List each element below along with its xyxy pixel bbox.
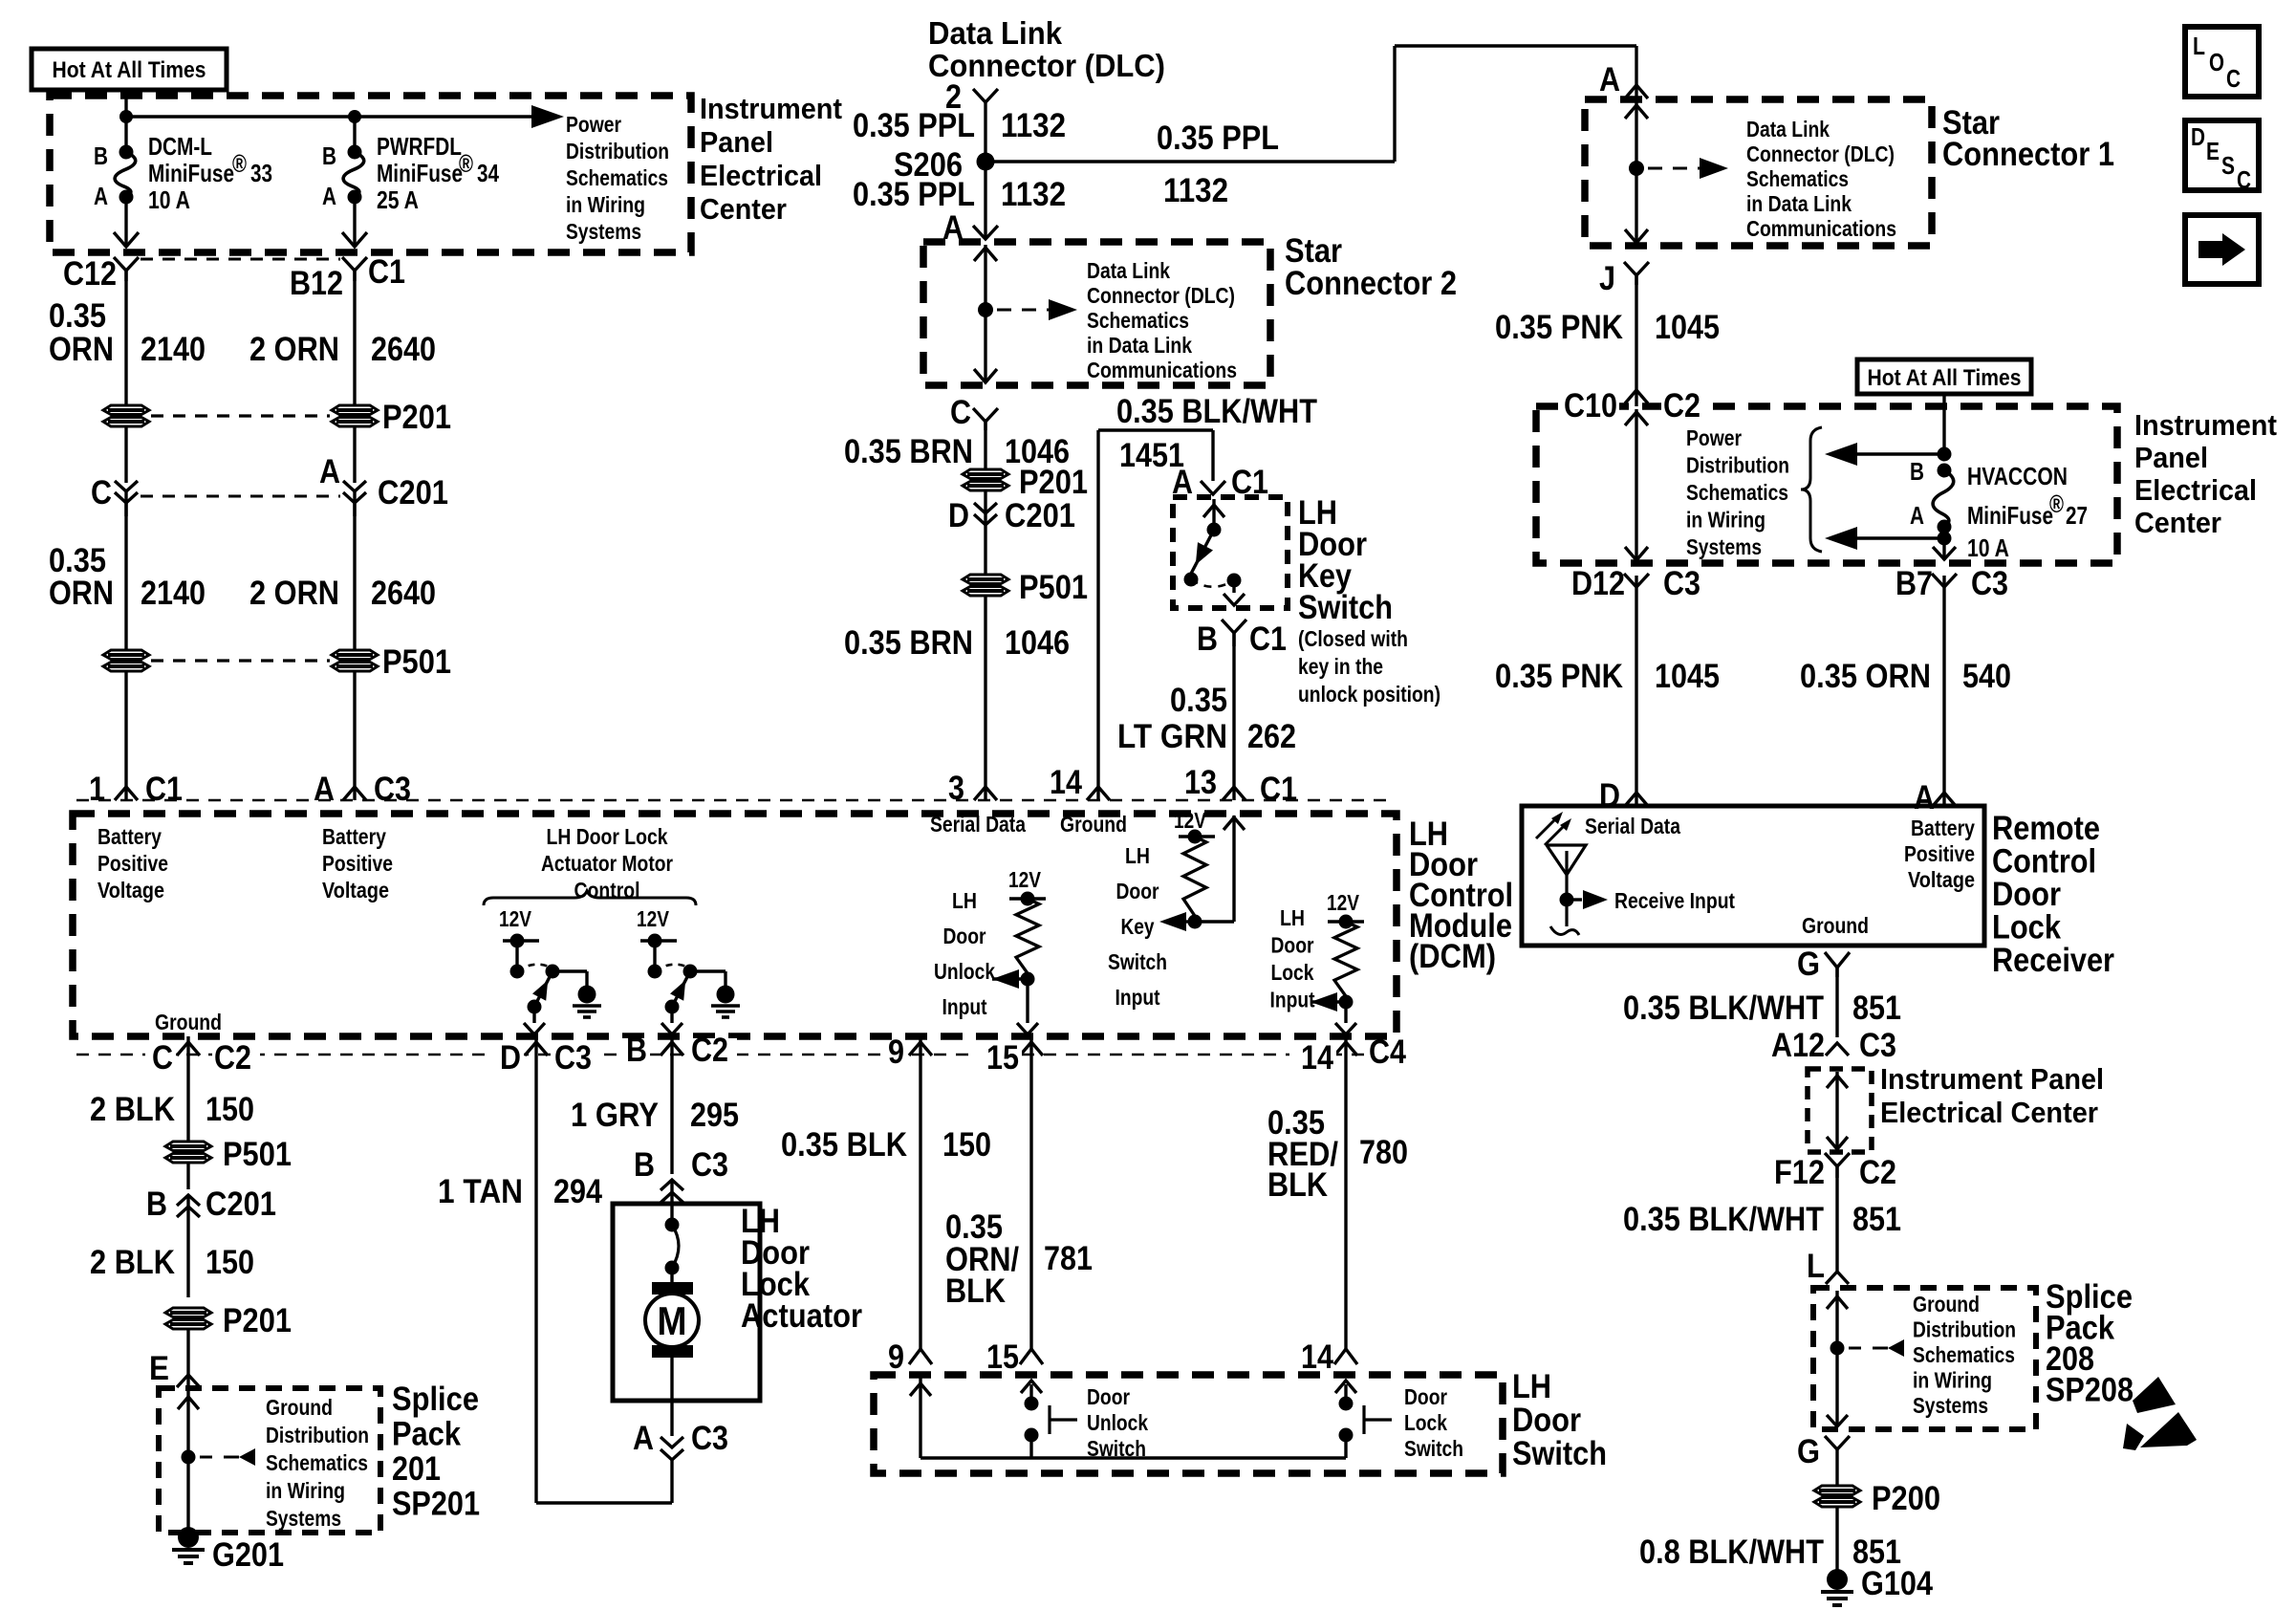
svg-text:O: O — [2209, 48, 2224, 76]
wire 2640 to DCM pin A — [343, 671, 366, 800]
pin label C1 (DCM pin1) — [145, 771, 183, 808]
label LH Door Key Switch — [1298, 494, 1393, 626]
svg-text:Schematics: Schematics — [1087, 308, 1189, 333]
svg-text:Switch: Switch — [1298, 589, 1393, 626]
node key switch output — [1227, 574, 1242, 588]
svg-text:Instrument: Instrument — [700, 92, 842, 125]
node antenna tap — [1560, 893, 1574, 907]
svg-text:Distribution: Distribution — [566, 139, 669, 163]
label 12V (left actuator switch) — [499, 906, 532, 931]
pin label 14 (DCM ground) — [1050, 764, 1082, 801]
label circuit 2640 upper — [371, 331, 436, 368]
label Remote Control Door Lock Receiver — [1992, 810, 2114, 979]
connector boundary dashed DCM top — [76, 799, 1391, 802]
svg-text:Electrical: Electrical — [700, 159, 822, 192]
node left switch input — [510, 965, 525, 979]
label circuit 1045 lower — [1655, 658, 1720, 695]
svg-text:0.35: 0.35 — [49, 297, 106, 335]
wire 1132 S206 to star connector 1 (up and over) — [986, 46, 1636, 162]
connector A12/C3 chevron — [1826, 1043, 1849, 1055]
pin label J (star conn 1 out) — [1599, 260, 1615, 297]
svg-text:0.35 BLK/WHT: 0.35 BLK/WHT — [1623, 990, 1824, 1027]
svg-text:25 A: 25 A — [377, 185, 419, 214]
connector C1 chevron (fuse34 out) — [342, 257, 367, 281]
node unlock switch bottom — [1025, 1428, 1039, 1443]
label 0.35 RED/BLK — [1267, 1104, 1338, 1204]
label Ground (DCM bottom left) — [155, 1010, 222, 1034]
svg-text:C3: C3 — [374, 771, 411, 808]
svg-text:Schematics: Schematics — [1746, 166, 1849, 191]
label 0.35 PPL lower — [853, 176, 975, 213]
label circuit 851 middle — [1852, 1201, 1901, 1238]
wire fuse27 to box edge — [1933, 538, 1956, 560]
wire fuse34 top stub — [353, 117, 356, 152]
svg-text:A: A — [94, 182, 108, 210]
svg-text:C3: C3 — [1663, 565, 1700, 602]
pin label A fuse27 — [1910, 501, 1924, 530]
svg-text:C3: C3 — [554, 1039, 592, 1077]
pin label 15 (switch in) — [986, 1338, 1019, 1376]
svg-text:1 TAN: 1 TAN — [438, 1173, 523, 1210]
connector P201 on wire 150 — [165, 1308, 211, 1329]
svg-text:Communications: Communications — [1087, 358, 1237, 382]
connector C201 chevrons wire 2640 — [343, 481, 366, 516]
svg-text:0.35: 0.35 — [1170, 682, 1227, 719]
svg-text:P201: P201 — [382, 399, 451, 436]
pin label B (C201 ground) — [146, 1186, 167, 1223]
label circuit 2140 upper — [141, 331, 206, 368]
svg-text:Input: Input — [1116, 985, 1160, 1010]
svg-text:Switch: Switch — [1108, 949, 1167, 974]
svg-text:150: 150 — [206, 1091, 254, 1128]
svg-text:C1: C1 — [1260, 771, 1297, 808]
svg-text:Battery: Battery — [1911, 816, 1975, 840]
pin label A (star conn 2) — [942, 209, 964, 247]
svg-text:B: B — [1197, 620, 1218, 658]
svg-text:Serial Data: Serial Data — [1585, 814, 1680, 838]
power label box Hot At All Times (right) — [1857, 359, 2031, 394]
pin label C3 (DCM pinA) — [374, 771, 411, 808]
svg-text:780: 780 — [1359, 1134, 1408, 1171]
svg-text:key in the: key in the — [1298, 654, 1383, 679]
connector L chevron — [1826, 1272, 1849, 1284]
pin label C12 — [63, 255, 117, 293]
node S206 splice — [977, 153, 995, 171]
svg-text:E: E — [2206, 137, 2220, 165]
svg-text:Input: Input — [1270, 988, 1315, 1012]
connector P501 on wire 1046 — [963, 575, 1008, 596]
pin label C3 (D12) — [1663, 565, 1700, 602]
node key switch common — [1207, 523, 1222, 537]
svg-text:in Data Link: in Data Link — [1746, 191, 1852, 216]
label circuit 1132 upper — [1001, 107, 1066, 144]
wire inside star connector 1 — [1625, 102, 1648, 243]
node left switch output — [528, 1000, 542, 1014]
svg-text:0.35 BLK/WHT: 0.35 BLK/WHT — [1623, 1201, 1824, 1238]
wire actuator bottom return — [536, 1460, 672, 1503]
node SP201 tap — [182, 1450, 196, 1465]
svg-text:294: 294 — [553, 1173, 602, 1210]
pin label C3 (A12) — [1859, 1027, 1896, 1064]
svg-text:C3: C3 — [1971, 565, 2008, 602]
svg-text:Door: Door — [1271, 933, 1314, 958]
label C201 (middle) — [1005, 497, 1075, 534]
svg-text:1 GRY: 1 GRY — [571, 1097, 659, 1134]
label circuit 780 — [1359, 1134, 1408, 1171]
svg-text:C2: C2 — [1859, 1154, 1896, 1191]
svg-text:Systems: Systems — [1686, 534, 1762, 559]
wire right switch to pin B — [661, 1007, 682, 1034]
connector C chevron below star conn 2 — [973, 408, 998, 430]
pin label A (C201 right) — [319, 453, 340, 490]
svg-text:in Wiring: in Wiring — [266, 1478, 345, 1503]
label Door Unlock Switch — [1087, 1384, 1148, 1461]
svg-text:Schematics: Schematics — [1913, 1342, 2015, 1367]
connector P201 on wire 1046 — [963, 469, 1008, 490]
svg-text:150: 150 — [206, 1244, 254, 1281]
pin label B (key switch bottom) — [1197, 620, 1218, 658]
svg-text:B: B — [1910, 457, 1924, 486]
wire from Hot At All Times box down — [124, 90, 127, 117]
svg-text:Data Link: Data Link — [1746, 117, 1830, 141]
pin label 1 (DCM) — [89, 771, 105, 808]
ground G104 — [1821, 1569, 1853, 1605]
label Ground Distribution Schematics in Wiring Systems (SP208) — [1913, 1292, 2016, 1418]
pin label 9 (switch in) — [888, 1338, 904, 1376]
label 2 ORN (wire 2640 upper) — [249, 331, 339, 368]
svg-text:0.35 BRN: 0.35 BRN — [844, 433, 973, 470]
wire 1132 pin2 to S206 — [984, 102, 986, 162]
wire 150 upper — [186, 1057, 189, 1142]
label Star Connector 2 — [1285, 232, 1457, 302]
svg-text:D12: D12 — [1571, 565, 1625, 602]
svg-text:D: D — [500, 1039, 521, 1077]
connector P200 — [1814, 1486, 1860, 1507]
connector 9 chevron below DCM — [909, 1036, 932, 1057]
arrow key switch input — [1159, 912, 1197, 931]
wire 1 GRY 295 — [670, 1057, 673, 1174]
supply bar lock resistor — [1328, 915, 1364, 929]
label 1 TAN — [438, 1173, 523, 1210]
pin label E (splice in) — [149, 1350, 169, 1387]
ground G201 — [172, 1527, 205, 1563]
svg-text:Voltage: Voltage — [97, 878, 164, 903]
svg-text:Connector 1: Connector 1 — [1942, 136, 2114, 173]
svg-text:Voltage: Voltage — [322, 878, 389, 903]
wire 2640 lower segment — [353, 503, 356, 650]
svg-text:C1: C1 — [1249, 620, 1287, 658]
wire 851 upper — [1835, 968, 1838, 1037]
instrument panel electrical center small box (dashed) — [1808, 1069, 1872, 1152]
pin label D (receiver) — [1599, 777, 1620, 815]
label Ground (DCM pin14) — [1060, 812, 1127, 837]
connector A chevron into star connector 2 — [973, 226, 998, 239]
svg-text:0.35 PPL: 0.35 PPL — [853, 176, 975, 213]
svg-text:Connector 2: Connector 2 — [1285, 265, 1457, 302]
svg-text:Switch: Switch — [1512, 1435, 1607, 1472]
wire fuse33 top stub — [124, 117, 127, 152]
svg-text:9: 9 — [888, 1033, 904, 1071]
svg-text:2640: 2640 — [371, 575, 436, 612]
pin label C2 (actuator) — [689, 1032, 737, 1069]
arrow from text SP208 — [1849, 1339, 1904, 1357]
label DLC Schematics in Data Link Communications (conn 1) — [1746, 117, 1896, 241]
label P501 (ground chain) — [223, 1136, 292, 1173]
svg-text:L: L — [1807, 1248, 1825, 1285]
connector B/C3 double chevron — [661, 1180, 683, 1225]
label 0.35 BLK/WHT (1451) — [1116, 393, 1317, 430]
svg-text:DCM-L: DCM-L — [148, 132, 212, 161]
svg-text:12V: 12V — [1174, 808, 1207, 833]
svg-text:Serial Data: Serial Data — [930, 812, 1026, 837]
label Data Link Connector (DLC) title — [928, 15, 1165, 83]
arrow lock input — [1310, 992, 1346, 1012]
LH door switch box (dashed) — [874, 1375, 1503, 1473]
wire inside splice pack 208 — [1827, 1291, 1848, 1426]
svg-text:Lock: Lock — [1992, 909, 2061, 946]
label 0.35 PNK upper — [1495, 309, 1623, 346]
svg-text:Battery: Battery — [322, 824, 386, 849]
svg-text:unlock position): unlock position) — [1298, 682, 1440, 707]
svg-text:MiniFuse: MiniFuse — [1967, 501, 2053, 530]
label 0.35 PPL upper — [853, 107, 975, 144]
splice pack 208 box (dashed) — [1813, 1288, 2036, 1429]
wire lock input to pin 14 C4 — [1335, 1002, 1356, 1034]
label Splice Pack 208 SP208 — [2046, 1278, 2134, 1409]
label Power Distribution Schematics in Wiring Systems (top-left) — [566, 112, 669, 244]
node lock switch bottom — [1339, 1428, 1354, 1443]
fuse F27 HVACCON MiniFuse 27 10A — [1933, 464, 1954, 534]
label circuit 851 upper — [1852, 990, 1901, 1027]
svg-text:LH: LH — [1512, 1368, 1551, 1405]
power label box Hot At All Times (left) — [32, 49, 227, 90]
pin label A (star conn 1) — [1599, 61, 1620, 98]
svg-text:Unlock: Unlock — [934, 959, 995, 984]
svg-text:Receiver: Receiver — [1992, 942, 2114, 979]
wire key input to pin 13 riser — [1195, 816, 1245, 922]
pin label C4 — [1367, 1033, 1415, 1071]
svg-text:0.35 PPL: 0.35 PPL — [1157, 120, 1279, 157]
lock switch arrow up — [1335, 1381, 1356, 1397]
label LH Door Switch — [1512, 1368, 1607, 1472]
connector B7/C3 chevron — [1932, 574, 1957, 587]
label 0.35 PPL (horizontal run) — [1157, 120, 1279, 157]
svg-text:C2: C2 — [691, 1032, 728, 1069]
svg-text:Power: Power — [1686, 425, 1742, 450]
connector C201 chevrons wire 150 — [177, 1195, 200, 1297]
label circuit 150 lower — [206, 1244, 254, 1281]
label circuit 2640 lower — [371, 575, 436, 612]
pin label D (C201 middle) — [948, 497, 969, 534]
svg-text:14: 14 — [1301, 1039, 1333, 1077]
LH door control module box (dashed) — [73, 814, 1397, 1036]
label P201 (ground chain) — [223, 1302, 292, 1339]
svg-text:0.35 PPL: 0.35 PPL — [853, 107, 975, 144]
label 2 ORN (wire 2640 lower) — [249, 575, 339, 612]
dashed arc key switch — [1191, 579, 1234, 587]
wire fuse33 to box edge with arrow — [114, 197, 139, 247]
dashed link P501-P501 — [151, 659, 330, 662]
svg-text:Pack: Pack — [392, 1416, 461, 1453]
svg-text:Door: Door — [943, 924, 986, 948]
node HVACCON junction upper — [1938, 447, 1952, 462]
svg-text:2140: 2140 — [141, 331, 206, 368]
pin label C (ground out) — [145, 1039, 176, 1077]
svg-text:BLK: BLK — [1267, 1166, 1328, 1204]
svg-text:C3: C3 — [691, 1146, 728, 1184]
svg-text:Distribution: Distribution — [1913, 1317, 2016, 1342]
connector A C1 chevron into key switch — [1201, 481, 1225, 494]
svg-text:1045: 1045 — [1655, 309, 1720, 346]
star connector 2 box (dashed) — [923, 242, 1270, 385]
node lock resistor bottom — [1339, 995, 1354, 1010]
supply bar unlock resistor — [1009, 892, 1046, 906]
wire HVACCON feed from Hot box — [1942, 394, 1945, 454]
pin label A (receiver) — [1914, 779, 1935, 816]
label 1132 (horizontal run) — [1163, 172, 1228, 209]
label 0.35 ORN (wire 2140 lower) — [49, 542, 114, 612]
wire 2140 upper segment — [124, 271, 127, 405]
wire unlock input to pin 15 — [1017, 979, 1038, 1034]
wire 1046 to DCM pin 3 — [974, 596, 997, 800]
wire 1132 S206 to star connector 2 — [984, 162, 986, 239]
svg-text:13: 13 — [1184, 764, 1217, 801]
connector P201 on wire 2640 — [332, 405, 378, 426]
svg-text:12V: 12V — [1008, 867, 1042, 892]
svg-text:0.35 ORN: 0.35 ORN — [1800, 658, 1931, 695]
pin label B fuse34 — [322, 141, 336, 170]
svg-text:PWRFDL: PWRFDL — [377, 132, 462, 161]
svg-text:Lock: Lock — [1271, 960, 1314, 985]
label P200 — [1872, 1480, 1940, 1517]
antenna receiver — [1536, 812, 1586, 935]
wire 150 to splice pack — [177, 1329, 200, 1388]
wire 1451 loop — [1098, 430, 1213, 800]
pin label G (receiver) — [1797, 946, 1820, 983]
wire 2140 to DCM pin 1 — [115, 671, 138, 800]
label Ground Distribution Schematics in Wiring Systems (SP201) — [266, 1395, 369, 1531]
pin label C3 (actuator bottom) — [691, 1420, 728, 1457]
svg-text:9: 9 — [888, 1338, 904, 1376]
pin label A fuse33 — [94, 182, 108, 210]
svg-text:Ground: Ground — [155, 1010, 222, 1034]
node key resistor bottom — [1188, 915, 1202, 929]
wire 1046 upper — [984, 422, 986, 469]
connector C12 chevron — [114, 257, 139, 281]
label Instrument Panel Electrical Center (top-left) — [700, 92, 842, 226]
pin label 14 (DCM out) — [1289, 1039, 1336, 1077]
svg-text:P201: P201 — [223, 1302, 292, 1339]
svg-text:Switch: Switch — [1404, 1436, 1463, 1461]
svg-text:B: B — [634, 1146, 655, 1184]
label 0.35 PNK lower — [1495, 658, 1623, 695]
svg-text:Voltage: Voltage — [1908, 867, 1975, 892]
wire arrow to power dist (upper) — [1825, 443, 1944, 466]
svg-text:Center: Center — [2134, 506, 2221, 539]
svg-text:1132: 1132 — [1001, 176, 1066, 213]
node actuator switch top — [665, 1218, 680, 1232]
svg-text:Door: Door — [1992, 876, 2061, 913]
pin label C2 (F12) — [1859, 1154, 1896, 1191]
node lock switch top — [1339, 1397, 1354, 1411]
svg-text:150: 150 — [942, 1126, 991, 1164]
svg-text:15: 15 — [986, 1338, 1019, 1376]
wire inside splice pack 201 — [178, 1391, 199, 1530]
unlock switch actuator symbol — [1050, 1405, 1077, 1434]
svg-text:C: C — [2226, 64, 2241, 93]
wire 1045 upper — [1635, 275, 1637, 406]
label 0.35 ORN/BLK — [945, 1208, 1019, 1310]
wire switch common bus — [921, 1456, 1346, 1459]
node tap star connector 1 — [1629, 161, 1644, 176]
brace actuator motor control — [484, 891, 696, 905]
label HVACCON MiniFuse 27 10A — [1967, 462, 2088, 562]
node HVACCON junction lower — [1938, 532, 1952, 546]
label P201 (middle) — [1019, 464, 1088, 501]
dashed link C-C201 — [141, 495, 340, 498]
svg-text:A: A — [314, 771, 335, 808]
connector pin 14 chevron — [1087, 787, 1110, 800]
label C201 (top left) — [378, 474, 448, 511]
svg-text:C201: C201 — [378, 474, 448, 511]
svg-text:D: D — [2191, 122, 2205, 151]
wire lock switch to common — [1344, 1435, 1347, 1458]
label circuit 540 — [1962, 658, 2011, 695]
connector B/C2 chevron below DCM — [661, 1036, 683, 1057]
svg-text:Electrical: Electrical — [2134, 473, 2257, 507]
DESC nav box — [2185, 120, 2259, 194]
pin label C2 (IPEC right in) — [1661, 387, 1707, 424]
pin label C3 (actuator) — [552, 1039, 600, 1077]
svg-text:Control: Control — [1992, 843, 2096, 881]
connector 15 chevron below DCM — [1020, 1036, 1043, 1057]
label LH Door Lock Input — [1270, 905, 1315, 1012]
svg-text:Systems: Systems — [266, 1506, 341, 1531]
pin label 9 (DCM out) — [881, 1033, 907, 1071]
svg-text:Key: Key — [1121, 914, 1155, 939]
svg-text:781: 781 — [1044, 1240, 1093, 1277]
svg-text:Receive Input: Receive Input — [1614, 888, 1735, 913]
label circuit 1046 upper — [1005, 433, 1070, 470]
wire arrow to power dist (lower) — [1825, 527, 1944, 550]
label LH Door Lock Actuator Motor Control — [541, 824, 673, 903]
switch arm right — [670, 971, 690, 1007]
svg-text:Schematics: Schematics — [266, 1450, 368, 1475]
svg-text:L: L — [2193, 32, 2205, 60]
label 0.35 LT GRN (262) — [1117, 682, 1227, 755]
wire 1045 lower — [1625, 587, 1648, 806]
label 0.8 BLK/WHT (851 lower) — [1639, 1534, 1824, 1571]
wire right switch to chassis ground — [690, 971, 726, 986]
svg-text:1045: 1045 — [1655, 658, 1720, 695]
svg-text:14: 14 — [1050, 764, 1082, 801]
label 0.35 BLK/WHT (851 middle) — [1623, 1201, 1824, 1238]
svg-text:Door: Door — [1087, 1384, 1130, 1409]
label closed with key in the unlock position — [1298, 626, 1440, 707]
svg-text:C: C — [2237, 165, 2251, 194]
svg-text:D: D — [1599, 777, 1620, 815]
svg-text:33: 33 — [250, 159, 272, 187]
label Serial Data (DCM) — [930, 812, 1026, 837]
svg-text:10 A: 10 A — [148, 185, 190, 214]
svg-text:C10: C10 — [1564, 387, 1617, 424]
svg-text:Center: Center — [700, 192, 787, 226]
chassis ground right switch — [711, 986, 740, 1018]
label 2 BLK upper — [90, 1091, 175, 1128]
resistor key switch input — [1183, 837, 1206, 916]
label circuit 1451 — [1119, 437, 1184, 474]
pin label A fuse34 — [322, 182, 336, 210]
